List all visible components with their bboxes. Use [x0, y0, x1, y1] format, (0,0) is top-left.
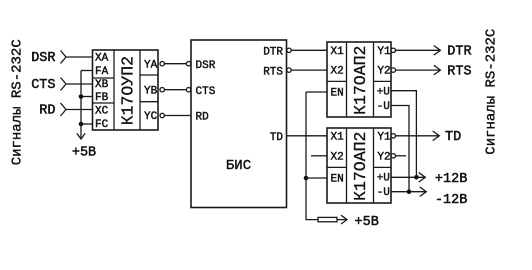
wire Y2 to RTS arrow	[396, 69, 441, 71]
svg-text:XB: XB	[95, 79, 109, 91]
svg-text:БИС: БИС	[226, 158, 251, 174]
svg-text:EN: EN	[331, 88, 344, 100]
svg-text:RD: RD	[39, 103, 55, 118]
svg-text:+5В: +5В	[72, 146, 96, 161]
svg-text:Y1: Y1	[377, 46, 391, 58]
svg-text:X1: X1	[331, 132, 345, 144]
svg-text:YB: YB	[144, 85, 158, 97]
wire EN2 stub	[306, 177, 327, 179]
wire FB stub	[81, 96, 93, 98]
wire Y1 to DTR arrow	[396, 49, 441, 51]
junction FC	[79, 122, 84, 127]
svg-text:+12В: +12В	[435, 172, 467, 187]
bubble DSR input of BIS	[186, 62, 190, 66]
svg-text:RTS: RTS	[447, 64, 471, 79]
connector chevron RD	[61, 103, 67, 116]
bubble Y2 upper	[391, 68, 395, 72]
svg-text:X2: X2	[331, 66, 344, 78]
wire YB to CTS	[164, 89, 186, 91]
wire F-bus vertical	[80, 71, 82, 140]
resistor R1	[318, 217, 337, 221]
arrow +12V	[419, 173, 426, 183]
IC U1 К170УП2 body	[93, 50, 159, 130]
wire FA stub	[81, 70, 93, 72]
svg-text:К17OАП2: К17OАП2	[351, 46, 370, 115]
svg-text:+U: +U	[377, 86, 390, 98]
wire DTR to X1	[291, 49, 327, 51]
wire -U1 rail	[391, 106, 409, 192]
svg-text:CTS: CTS	[196, 86, 216, 98]
svg-text:Y1: Y1	[377, 132, 391, 144]
arrow -12V	[420, 187, 427, 197]
svg-text:DTR: DTR	[263, 47, 283, 59]
wire EN rail vertical	[306, 92, 318, 220]
svg-text:RTS: RTS	[263, 67, 283, 79]
svg-text:Y2: Y2	[377, 151, 390, 163]
svg-text:Y2: Y2	[377, 66, 390, 78]
svg-text:-12В: -12В	[435, 193, 467, 208]
wire DSR to XA	[66, 56, 93, 58]
wire RD to XC	[66, 109, 93, 111]
junction -U rail	[407, 189, 412, 194]
wire +U1 rail	[391, 91, 416, 178]
power arrow +5V bottom	[341, 215, 347, 224]
arrow DTR	[434, 46, 441, 56]
bubble YB output	[160, 88, 164, 92]
svg-text:FA: FA	[95, 66, 109, 78]
wire CTS to XB	[66, 83, 93, 85]
bubble Y2 lower	[391, 154, 395, 158]
connector chevron DSR	[61, 51, 67, 64]
wire Y2 stub lower	[396, 155, 407, 157]
bubble YC output	[160, 113, 164, 117]
wire FC stub	[81, 123, 93, 125]
svg-text:Сигналы RS-232C: Сигналы RS-232C	[483, 29, 499, 155]
svg-text:+5В: +5В	[355, 215, 379, 230]
bubble CTS input of BIS	[186, 88, 190, 92]
svg-text:Сигналы RS-232C: Сигналы RS-232C	[10, 39, 26, 165]
bubble Y1 upper	[391, 48, 395, 52]
svg-text:X2: X2	[331, 151, 344, 163]
IC U3 К170АП2 body	[327, 42, 391, 117]
svg-text:+U: +U	[377, 172, 390, 184]
svg-text:-U: -U	[377, 187, 390, 199]
arrow RTS	[434, 65, 441, 75]
wire Y1 to TD arrow	[396, 135, 439, 137]
svg-text:FC: FC	[95, 119, 109, 131]
wire YC to RD	[164, 115, 191, 117]
IC U2 БИС body	[191, 40, 287, 208]
arrow TD	[433, 131, 440, 141]
svg-text:X1: X1	[331, 46, 345, 58]
bubble DTR output of BIS	[287, 48, 291, 52]
wire +U2 to +12V	[391, 176, 425, 178]
svg-text:YA: YA	[144, 59, 158, 71]
svg-text:DSR: DSR	[31, 51, 55, 66]
power arrow +5V left	[77, 133, 85, 139]
wire resistor to arrow	[337, 219, 347, 221]
svg-text:RD: RD	[196, 112, 210, 124]
svg-text:EN: EN	[331, 174, 344, 186]
junction EN2	[304, 176, 309, 181]
wire YA to DSR	[164, 63, 186, 65]
svg-text:DTR: DTR	[447, 45, 471, 60]
svg-text:DSR: DSR	[196, 60, 216, 72]
connector chevron CTS	[61, 78, 67, 91]
wire X2 stub lower	[311, 155, 327, 157]
bubble RTS output of BIS	[287, 68, 291, 72]
svg-text:XC: XC	[95, 106, 109, 118]
bubble YA output	[160, 62, 164, 66]
junction FB	[79, 94, 84, 99]
svg-text:XA: XA	[95, 53, 109, 65]
svg-text:К17OАП2: К17OАП2	[351, 132, 370, 201]
svg-text:CTS: CTS	[31, 78, 55, 93]
IC U4 К170АП2 body	[327, 128, 391, 203]
svg-text:FB: FB	[95, 92, 109, 104]
wire RTS to X2	[291, 69, 327, 71]
svg-text:TD: TD	[270, 132, 284, 144]
wire -U2 to -12V	[391, 191, 426, 193]
svg-text:-U: -U	[377, 101, 390, 113]
svg-text:К17OУП2: К17OУП2	[118, 56, 137, 125]
wire EN1 to EN rail	[306, 91, 327, 93]
wire TD to X1 of U4	[287, 135, 328, 137]
svg-text:YC: YC	[144, 111, 158, 123]
junction +U rail	[414, 175, 419, 180]
svg-text:TD: TD	[445, 130, 461, 145]
bubble Y1 lower	[391, 134, 395, 138]
